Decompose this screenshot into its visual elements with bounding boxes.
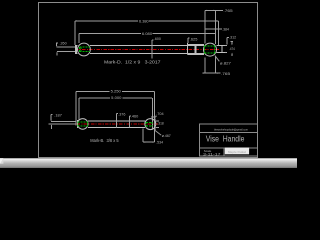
top view rod left end cap (74, 45, 76, 54)
dia .827 leader (215, 56, 219, 62)
label .600 leader (151, 40, 153, 59)
dim .765 bottom line (203, 72, 221, 74)
svg-text:.312: .312 (229, 35, 237, 40)
dim .704 extension (155, 115, 157, 117)
svg-text:.625: .625 (190, 36, 198, 41)
dim 5.250 right extension (154, 91, 156, 142)
title block divider above bottom row (199, 147, 257, 149)
title block vertical divider bottom row (223, 148, 225, 156)
dim .318 lower arrow (154, 128, 156, 130)
svg-text:5.000: 5.000 (111, 95, 122, 100)
svg-text:Maple Dukat: Maple Dukat (228, 150, 246, 154)
svg-text:.534: .534 (156, 139, 164, 144)
dim .312 leader (226, 38, 228, 45)
dim .704 line (151, 116, 156, 118)
right stub lower line (216, 51, 227, 53)
right stub upper line (216, 44, 227, 46)
right stub end cap (221, 45, 223, 52)
collar step line (186, 43, 188, 55)
sheet border left (38, 2, 40, 158)
top view centerline (red) (75, 49, 219, 51)
dim 6.380 line (75, 20, 138, 22)
dim 6.380 left extension (74, 21, 76, 45)
svg-text:.474: .474 (229, 46, 235, 51)
svg-text:.187: .187 (54, 112, 62, 117)
collar groove lines (194, 45, 196, 55)
rod extension right lower (156, 127, 159, 129)
sheet border bottom (39, 156, 258, 158)
left ball (78, 43, 91, 56)
svg-text:.318: .318 (157, 120, 164, 125)
svg-text:.765: .765 (223, 8, 233, 13)
dim 6.080 line (79, 33, 141, 35)
right ball (204, 43, 217, 56)
dim 5.000 right extension (151, 98, 153, 130)
label .376 leader (115, 114, 117, 129)
dim .260 upper bracket (56, 43, 58, 47)
title block material box (225, 148, 249, 155)
title block outer border (199, 124, 257, 156)
svg-text:6.080: 6.080 (142, 31, 153, 36)
dim 6.380 right extension (217, 21, 219, 45)
sheet border top (39, 2, 258, 4)
bottom left ball (77, 119, 88, 130)
ball extension line left upper (204, 10, 206, 43)
dim .474 lower tick (231, 54, 233, 56)
bottom left ball hidden lines (green) (78, 121, 88, 123)
top view rod upper outline (75, 45, 77, 47)
ball extension line left lower (204, 58, 206, 74)
dim .260 lower extension line (57, 50, 75, 52)
dim .260 lower arrow (56, 52, 58, 55)
label .625 leader (187, 38, 189, 43)
dim 5.000 left extension (78, 98, 80, 120)
svg-text:3-11-17: 3-11-17 (203, 153, 221, 157)
dim .187 bracket (50, 115, 52, 121)
dim .187 lower arrow (51, 125, 53, 129)
label .460 leader (129, 116, 131, 128)
svg-text:6.380: 6.380 (139, 18, 149, 23)
bottom right knob (145, 119, 156, 130)
right ball hidden hole lines (green) (204, 45, 216, 47)
bottom right knob hidden lines (green) (146, 121, 152, 123)
dim .534 left extension (142, 129, 144, 143)
svg-text:.765: .765 (221, 71, 231, 76)
sheet border right (257, 2, 259, 158)
title block divider under email (199, 132, 257, 134)
ball extension line right lower (215, 56, 217, 73)
bottom rod upper outline (88, 120, 145, 122)
dim .534 line (143, 141, 155, 143)
bottom view centerline (red) (77, 123, 158, 125)
dim .260 upper extension line (57, 46, 76, 48)
dia .467 leader (154, 130, 161, 135)
svg-text:theworkshopdude@gmail.com: theworkshopdude@gmail.com (214, 128, 249, 132)
svg-text:ø.827: ø.827 (220, 61, 232, 66)
bottom rod lower outline (88, 127, 145, 129)
svg-text:Mark-B. 3/8 x 5: Mark-B. 3/8 x 5 (90, 138, 119, 143)
svg-text:.704: .704 (156, 111, 164, 116)
dim .384 line (205, 28, 222, 30)
scrollbar left notch (0, 158, 3, 163)
dim .765 top line (205, 9, 223, 11)
svg-text:5.250: 5.250 (111, 89, 122, 94)
svg-text:Vise Handle: Vise Handle (206, 135, 245, 144)
ball extension line right upper (215, 10, 217, 44)
svg-text:.460: .460 (131, 113, 139, 118)
collar upper outline (187, 44, 203, 46)
dim 5.000 line (79, 97, 110, 99)
bottom rod left end cap (76, 120, 78, 128)
dim 5.250 line (76, 90, 109, 92)
left ball hidden hole lines (green) (79, 46, 90, 48)
dim .187 lower extension line (49, 123, 76, 125)
dim 5.250 left extension (75, 91, 77, 125)
svg-text:.384: .384 (222, 27, 230, 32)
svg-text:.600: .600 (154, 36, 162, 41)
svg-text:ø.467: ø.467 (162, 133, 172, 138)
svg-text:.376: .376 (118, 111, 126, 116)
dim .318 upper arrow (154, 118, 156, 120)
dim 6.080 left extension (78, 34, 80, 43)
collar lower outline (187, 53, 203, 55)
dim .187 upper extension line (51, 121, 76, 123)
rod extension right upper (156, 120, 159, 122)
svg-text:.260: .260 (60, 41, 68, 46)
svg-text:Mark-D. 1/2 x 9 3-2017: Mark-D. 1/2 x 9 3-2017 (104, 59, 161, 64)
bottom scrollbar band (0, 158, 297, 168)
top view rod lower outline (75, 52, 77, 54)
